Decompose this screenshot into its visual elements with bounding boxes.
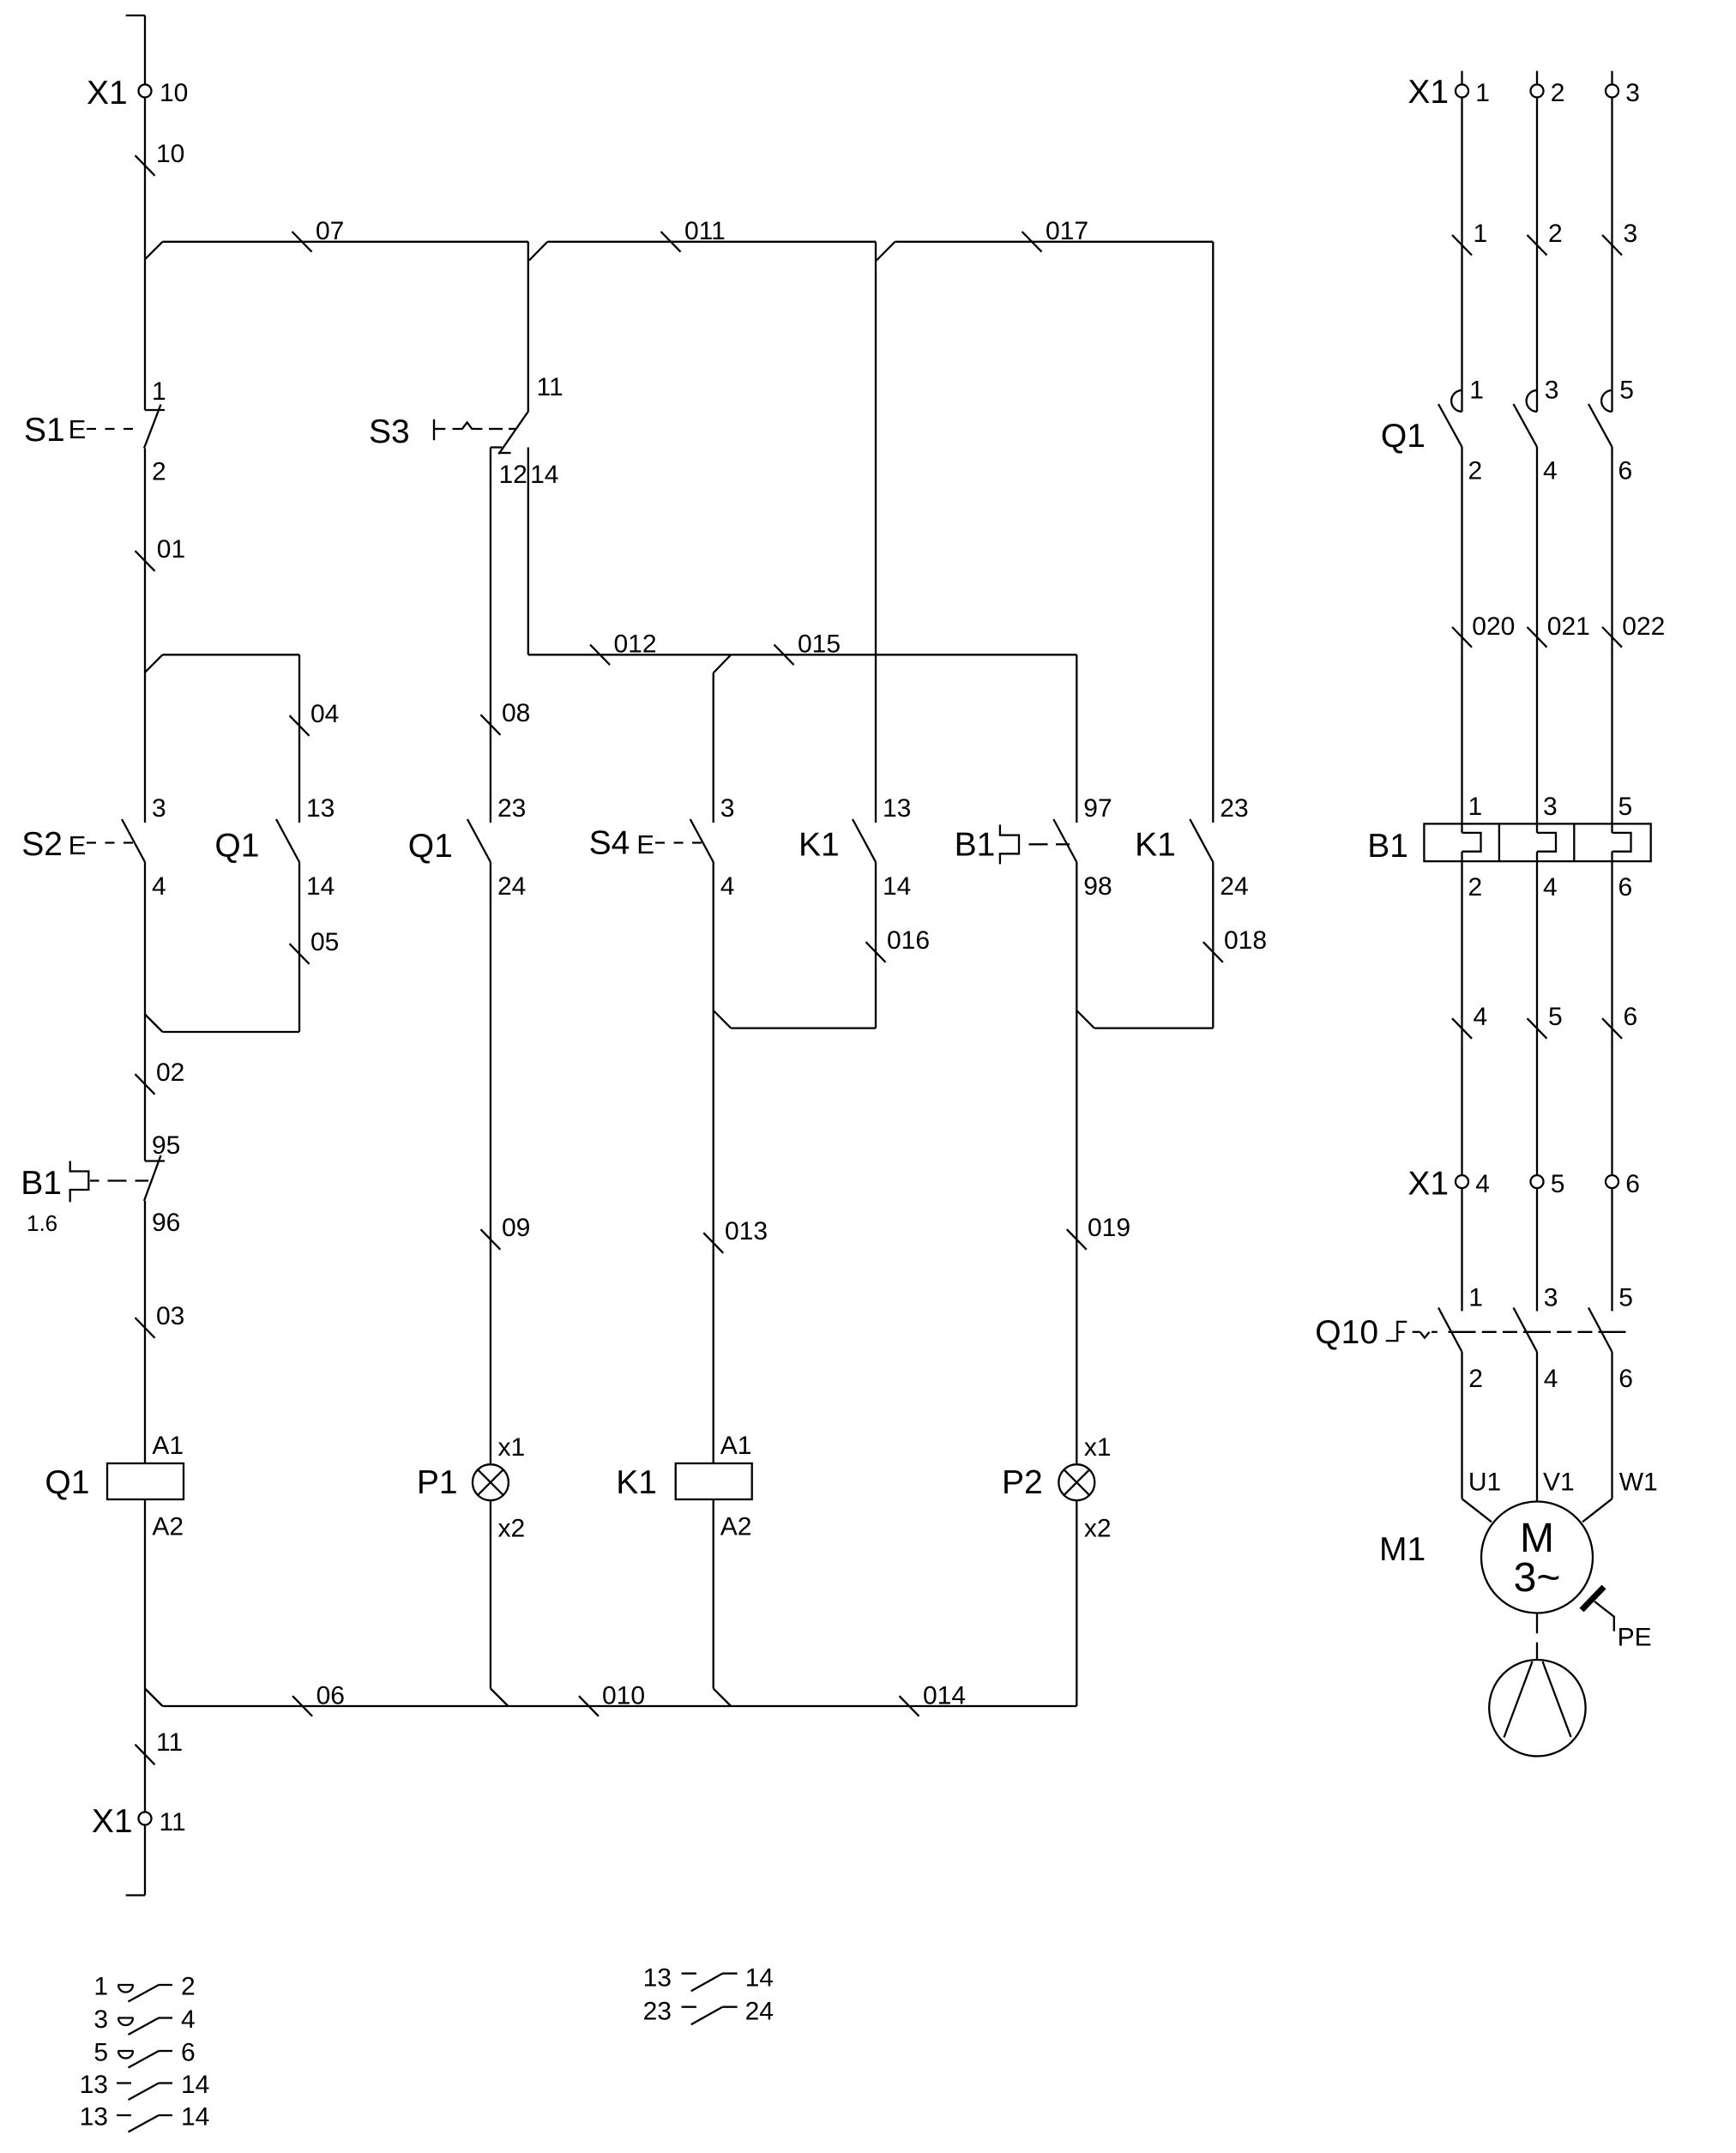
wire K1 A2 down to bottom bus bbox=[714, 1499, 732, 1706]
svg-text:x2: x2 bbox=[498, 1515, 526, 1543]
svg-text:95: 95 bbox=[152, 1131, 180, 1160]
svg-text:2: 2 bbox=[1551, 79, 1565, 107]
wire number 3 bbox=[1602, 220, 1637, 256]
svg-text:K1: K1 bbox=[616, 1464, 657, 1501]
node: Q1 13/14 branch top rail from main wire bbox=[145, 654, 163, 672]
svg-text:K1: K1 bbox=[799, 827, 840, 864]
svg-text:K1: K1 bbox=[1135, 827, 1176, 864]
contactor Q10 pole 5/6 bbox=[1588, 1284, 1633, 1393]
svg-text:x1: x1 bbox=[1084, 1433, 1112, 1462]
overload relay B1 power element box bbox=[1367, 823, 1651, 865]
svg-text:3: 3 bbox=[1624, 220, 1638, 248]
svg-text:05: 05 bbox=[310, 928, 339, 956]
svg-text:1: 1 bbox=[1474, 220, 1488, 248]
svg-text:V1: V1 bbox=[1543, 1469, 1575, 1497]
B1 heater element 5/6 bbox=[1612, 793, 1633, 902]
wire number 017 bbox=[1022, 217, 1089, 252]
wire number 018 bbox=[1203, 926, 1267, 962]
pushbutton S4 (NO) bbox=[589, 794, 735, 901]
wire number 08 bbox=[480, 699, 530, 735]
svg-text:13: 13 bbox=[306, 794, 335, 823]
node: bottom bus 06 from main wire bbox=[145, 1689, 163, 1707]
Q1 contact mirror row 13-14 bbox=[80, 2071, 210, 2100]
terminal X1:3 bbox=[1606, 79, 1640, 107]
svg-text:3: 3 bbox=[1545, 377, 1559, 405]
wire number 10 bbox=[136, 140, 185, 176]
wire 017 top bus bbox=[895, 241, 1214, 243]
overload relay contact B1 97/98 (NO) bbox=[955, 794, 1112, 901]
node: S3 branch from top bus bbox=[528, 242, 548, 411]
svg-text:3: 3 bbox=[1625, 79, 1640, 107]
svg-text:018: 018 bbox=[1224, 926, 1267, 955]
svg-text:4: 4 bbox=[1543, 873, 1558, 902]
svg-text:2: 2 bbox=[1468, 457, 1483, 485]
svg-text:021: 021 bbox=[1547, 612, 1590, 641]
svg-text:97: 97 bbox=[1083, 794, 1112, 823]
svg-text:13: 13 bbox=[883, 794, 911, 823]
svg-text:13: 13 bbox=[643, 1963, 672, 1992]
svg-text:015: 015 bbox=[798, 630, 841, 659]
wire B1 96 to coil Q1 A1 bbox=[144, 1201, 146, 1463]
svg-text:14: 14 bbox=[530, 461, 558, 489]
svg-text:Q1: Q1 bbox=[45, 1464, 89, 1501]
svg-text:4: 4 bbox=[1544, 1365, 1558, 1393]
svg-text:10: 10 bbox=[156, 140, 184, 168]
wire X1:10 to S1 pin 1 bbox=[144, 98, 146, 411]
svg-text:X1: X1 bbox=[1407, 74, 1449, 111]
svg-text:5: 5 bbox=[1619, 377, 1634, 405]
wire 011 top bus bbox=[547, 241, 876, 243]
wire 012 bbox=[528, 654, 1077, 655]
wire number 4 bbox=[1452, 1003, 1487, 1039]
selector switch S3 (changeover) bbox=[369, 373, 564, 489]
wire S1 to S2 bbox=[144, 449, 146, 823]
wire P1 x2 down to bottom bus bbox=[491, 1500, 509, 1706]
svg-text:6: 6 bbox=[1618, 873, 1633, 902]
wire number 015 bbox=[775, 630, 841, 666]
svg-text:x2: x2 bbox=[1084, 1515, 1112, 1543]
svg-text:4: 4 bbox=[720, 872, 735, 901]
svg-text:6: 6 bbox=[181, 2039, 196, 2067]
svg-text:1.6: 1.6 bbox=[27, 1210, 57, 1236]
svg-text:2: 2 bbox=[1468, 1365, 1483, 1393]
K1 contact mirror row 23-24 bbox=[643, 1997, 774, 2025]
svg-text:x1: x1 bbox=[498, 1433, 526, 1462]
Q1 contact mirror row 3-4 bbox=[93, 2005, 195, 2035]
svg-text:02: 02 bbox=[156, 1058, 184, 1087]
aux contact K1 13/14 bbox=[799, 794, 911, 901]
svg-text:A1: A1 bbox=[720, 1432, 752, 1460]
terminal X1 1-2-3 label bbox=[1407, 74, 1449, 111]
wire B1 to X1:4 bbox=[1461, 861, 1462, 1175]
svg-text:6: 6 bbox=[1624, 1003, 1638, 1031]
svg-text:017: 017 bbox=[1046, 217, 1088, 245]
wire number 02 bbox=[136, 1058, 185, 1095]
svg-text:012: 012 bbox=[614, 630, 657, 659]
svg-text:14: 14 bbox=[745, 1963, 774, 1992]
terminal X1:2 bbox=[1531, 79, 1565, 107]
svg-text:14: 14 bbox=[306, 872, 335, 901]
svg-text:5: 5 bbox=[1618, 1284, 1633, 1312]
svg-text:23: 23 bbox=[643, 1997, 672, 2025]
relay coil K1 bbox=[616, 1432, 752, 1541]
wire S2 to B1 bbox=[144, 862, 146, 1161]
wire X1:3 to Q1 pin bbox=[1611, 98, 1612, 412]
svg-text:U1: U1 bbox=[1468, 1469, 1501, 1497]
wire number 1 bbox=[1452, 220, 1487, 256]
svg-text:13: 13 bbox=[80, 2071, 108, 2099]
svg-text:1: 1 bbox=[1475, 79, 1490, 107]
wire number 021 bbox=[1528, 612, 1590, 648]
breaker Q1 pole 3/4 bbox=[1514, 377, 1559, 485]
svg-text:03: 03 bbox=[156, 1302, 184, 1330]
bottom rail K1 13/14 loop bbox=[731, 1027, 876, 1028]
svg-text:3: 3 bbox=[1544, 1284, 1558, 1312]
bottom bus wire 06/010/014 bbox=[163, 1705, 1077, 1707]
svg-text:Q1: Q1 bbox=[214, 828, 259, 865]
svg-text:4: 4 bbox=[152, 872, 166, 901]
svg-text:X1: X1 bbox=[92, 1803, 133, 1840]
svg-text:E: E bbox=[636, 829, 654, 859]
wire Q1 2 to B1 bbox=[1461, 447, 1462, 823]
wire S3 pin 12 down to Q1 23 bbox=[490, 448, 491, 823]
svg-text:011: 011 bbox=[684, 217, 726, 245]
wire number 05 bbox=[290, 928, 340, 964]
bottom rail K1 23/24 loop bbox=[1094, 1027, 1214, 1028]
svg-text:Q1: Q1 bbox=[1381, 418, 1426, 455]
svg-text:24: 24 bbox=[745, 1997, 774, 2025]
motor M1 bbox=[1379, 1502, 1593, 1613]
svg-text:11: 11 bbox=[160, 1808, 186, 1836]
wire number 07 bbox=[292, 217, 345, 252]
node: branch of top bus 07 from main wire bbox=[145, 242, 163, 260]
svg-text:07: 07 bbox=[316, 217, 344, 245]
breaker Q1 pole 1/2 bbox=[1438, 377, 1484, 485]
svg-text:11: 11 bbox=[537, 373, 564, 401]
svg-text:5: 5 bbox=[1551, 1170, 1565, 1198]
wire number 09 bbox=[480, 1214, 530, 1250]
svg-text:A2: A2 bbox=[720, 1513, 752, 1541]
svg-text:6: 6 bbox=[1625, 1170, 1640, 1198]
svg-text:014: 014 bbox=[923, 1682, 966, 1710]
svg-text:14: 14 bbox=[181, 2103, 209, 2132]
svg-text:X1: X1 bbox=[1407, 1166, 1449, 1203]
svg-text:010: 010 bbox=[602, 1682, 645, 1710]
aux contact K1 23/24 bbox=[1135, 794, 1249, 901]
node: K1 13/14 loop bottom rail bbox=[714, 1010, 732, 1028]
wire number 2 bbox=[1528, 220, 1563, 256]
svg-text:020: 020 bbox=[1472, 612, 1515, 641]
svg-text:6: 6 bbox=[1618, 1365, 1633, 1393]
svg-text:6: 6 bbox=[1618, 457, 1633, 485]
pump symbol bbox=[1489, 1660, 1585, 1756]
svg-text:B1: B1 bbox=[1367, 828, 1408, 865]
terminal X1:10 bbox=[87, 75, 188, 112]
terminal X1:1 bbox=[1456, 79, 1490, 107]
svg-text:1: 1 bbox=[1468, 1284, 1483, 1312]
svg-text:X1: X1 bbox=[87, 75, 128, 112]
PE connection bbox=[1582, 1587, 1652, 1651]
svg-text:23: 23 bbox=[497, 794, 526, 823]
wire from bracket to terminal X1:10 bbox=[144, 15, 146, 85]
wire X1:1 to Q1 pin bbox=[1461, 98, 1462, 412]
svg-text:W1: W1 bbox=[1619, 1469, 1658, 1497]
B1 heater element 3/4 bbox=[1537, 793, 1558, 902]
svg-text:S4: S4 bbox=[589, 824, 630, 861]
svg-text:09: 09 bbox=[502, 1214, 530, 1242]
svg-text:08: 08 bbox=[502, 699, 530, 727]
svg-text:3: 3 bbox=[93, 2005, 108, 2034]
svg-text:01: 01 bbox=[157, 535, 185, 564]
circuit breaker Q1 label bbox=[1381, 418, 1426, 455]
wire number 012 bbox=[590, 630, 657, 666]
wire Q1 24 down to lamp P1 bbox=[490, 862, 491, 1464]
svg-text:98: 98 bbox=[1083, 872, 1112, 901]
wire 015 corner down to B1 97 bbox=[1076, 654, 1077, 823]
terminal X1:6 bbox=[1606, 1170, 1640, 1198]
svg-text:3: 3 bbox=[152, 794, 166, 823]
svg-text:04: 04 bbox=[310, 700, 339, 728]
svg-text:1: 1 bbox=[93, 1973, 108, 2001]
wire number 11 bbox=[136, 1728, 184, 1764]
wire Q10:6 to motor W1 bbox=[1582, 1352, 1658, 1522]
wire X1:6 to Q10 bbox=[1611, 1189, 1612, 1312]
svg-text:2: 2 bbox=[181, 1973, 196, 2001]
svg-text:A1: A1 bbox=[152, 1432, 184, 1460]
wire X1:4 to Q10 bbox=[1461, 1189, 1462, 1312]
svg-text:96: 96 bbox=[152, 1209, 180, 1237]
wire S4 to coil K1 A1 bbox=[713, 862, 714, 1463]
wire Q10:4 to motor V1 bbox=[1537, 1352, 1575, 1502]
svg-text:P2: P2 bbox=[1002, 1464, 1043, 1501]
svg-text:4: 4 bbox=[181, 2005, 196, 2034]
wire Q1 14 down bbox=[298, 862, 300, 1032]
svg-text:3: 3 bbox=[720, 794, 735, 823]
wire P2 x2 down to bottom bus corner bbox=[1076, 1500, 1077, 1706]
svg-text:P1: P1 bbox=[417, 1464, 458, 1501]
wire number 020 bbox=[1452, 612, 1515, 648]
svg-text:1: 1 bbox=[152, 377, 166, 406]
contactor Q10 pole 1/2 bbox=[1438, 1284, 1483, 1393]
phase wire stub above X1:2 bbox=[1536, 71, 1538, 85]
node: K1 23/24 loop bottom rail bbox=[1076, 1010, 1094, 1028]
svg-text:2: 2 bbox=[1468, 873, 1483, 902]
svg-text:3: 3 bbox=[1543, 793, 1558, 821]
Q1 contact mirror row 5-6 bbox=[93, 2039, 195, 2068]
node: K1 13 branch from top bus bbox=[876, 242, 895, 823]
svg-text:B1: B1 bbox=[21, 1165, 62, 1202]
pushbutton S1 (NC, stop) bbox=[24, 377, 166, 486]
wire X1:2 to Q1 pin bbox=[1536, 98, 1538, 412]
svg-text:1: 1 bbox=[1469, 377, 1484, 405]
svg-text:3~: 3~ bbox=[1514, 1555, 1561, 1601]
wire B1 to X1:6 bbox=[1611, 861, 1612, 1175]
svg-text:14: 14 bbox=[883, 872, 911, 901]
terminal bracket bottom of X1:11 bbox=[126, 1894, 145, 1896]
svg-text:S1: S1 bbox=[24, 412, 65, 449]
wire number 06 bbox=[292, 1682, 345, 1716]
wire number 5 bbox=[1528, 1003, 1563, 1039]
wire number 03 bbox=[136, 1302, 185, 1338]
svg-text:PE: PE bbox=[1618, 1623, 1652, 1651]
svg-text:022: 022 bbox=[1622, 612, 1665, 641]
svg-text:5: 5 bbox=[93, 2039, 108, 2067]
svg-text:10: 10 bbox=[160, 79, 188, 107]
wire B1 to X1:5 bbox=[1536, 861, 1538, 1175]
svg-text:B1: B1 bbox=[955, 827, 996, 864]
wire X1:11 to bracket bbox=[144, 1825, 146, 1896]
wire Q10:2 to motor U1 bbox=[1462, 1352, 1502, 1522]
wire number 014 bbox=[900, 1682, 967, 1716]
svg-text:4: 4 bbox=[1475, 1170, 1490, 1198]
wire number 6 bbox=[1602, 1003, 1637, 1039]
indicator lamp P1 bbox=[417, 1433, 525, 1543]
contactor coil Q1 bbox=[45, 1432, 184, 1541]
K1 contact mirror row 13-14 bbox=[643, 1963, 774, 1992]
wire B1 98 down to lamp P2 bbox=[1076, 862, 1077, 1464]
svg-text:E: E bbox=[69, 830, 87, 860]
wire number 022 bbox=[1602, 612, 1665, 648]
terminal X1 4-5-6 label bbox=[1407, 1166, 1449, 1203]
overload relay contact B1 95/96 (NC) bbox=[21, 1131, 180, 1237]
svg-text:24: 24 bbox=[1220, 872, 1248, 901]
Q10 linkage dashed line bbox=[1449, 1331, 1626, 1333]
wire 017 corner down to K1 23 bbox=[1212, 242, 1214, 823]
terminal X1:4 bbox=[1456, 1170, 1490, 1198]
terminal X1:5 bbox=[1531, 1170, 1565, 1198]
top rail of Q1 13/14 parallel branch bbox=[163, 654, 300, 823]
B1 heater element 1/2 bbox=[1462, 793, 1483, 902]
svg-text:S2: S2 bbox=[21, 826, 63, 863]
svg-text:S3: S3 bbox=[369, 413, 410, 450]
wire number 010 bbox=[579, 1682, 645, 1716]
svg-text:06: 06 bbox=[316, 1682, 345, 1710]
terminal X1:11 bbox=[92, 1803, 186, 1840]
motor shaft link bbox=[1536, 1613, 1538, 1661]
svg-text:013: 013 bbox=[725, 1217, 768, 1245]
svg-text:Q1: Q1 bbox=[408, 828, 453, 865]
wire 07 top bus bbox=[163, 241, 528, 243]
Q1 contact mirror row 1-2 bbox=[93, 1973, 195, 2002]
wire X1:5 to Q10 bbox=[1536, 1189, 1538, 1312]
bottom rail of Q1 13/14 parallel branch bbox=[145, 1015, 299, 1033]
svg-text:4: 4 bbox=[1543, 457, 1558, 485]
pushbutton S2 (NO, start) bbox=[21, 794, 166, 901]
aux contact Q1 13/14 bbox=[214, 794, 335, 901]
svg-text:14: 14 bbox=[181, 2071, 209, 2099]
node: S4 branch from wire 012 bbox=[714, 654, 732, 823]
wire S3 pin 14 down bbox=[527, 448, 529, 655]
indicator lamp P2 bbox=[1002, 1433, 1112, 1543]
wire Q1 4 to B1 bbox=[1536, 447, 1538, 823]
svg-text:A2: A2 bbox=[152, 1513, 184, 1541]
svg-text:1: 1 bbox=[1468, 793, 1483, 821]
svg-text:Q10: Q10 bbox=[1315, 1314, 1378, 1351]
phase wire stub above X1:1 bbox=[1461, 71, 1462, 85]
svg-text:2: 2 bbox=[1548, 220, 1563, 248]
wire number 011 bbox=[661, 217, 726, 252]
svg-text:24: 24 bbox=[497, 872, 526, 901]
wire number 01 bbox=[136, 535, 186, 571]
terminal bracket top of X1:10 bbox=[126, 15, 145, 16]
svg-text:019: 019 bbox=[1088, 1214, 1130, 1242]
wire number 016 bbox=[866, 926, 931, 962]
svg-text:23: 23 bbox=[1220, 794, 1248, 823]
wire number 013 bbox=[703, 1217, 768, 1253]
wire number 019 bbox=[1067, 1214, 1130, 1250]
svg-text:5: 5 bbox=[1548, 1003, 1563, 1031]
svg-text:M1: M1 bbox=[1379, 1531, 1426, 1568]
contactor Q10 label and actuator bbox=[1315, 1314, 1438, 1351]
wire K1 24 down bbox=[1212, 862, 1214, 1028]
svg-text:E: E bbox=[69, 414, 87, 444]
wire number 04 bbox=[290, 700, 340, 736]
Q1 contact mirror row 13-14 bbox=[80, 2103, 210, 2132]
svg-text:11: 11 bbox=[156, 1728, 183, 1757]
svg-text:016: 016 bbox=[887, 926, 930, 955]
breaker Q1 pole 5/6 bbox=[1588, 377, 1634, 485]
aux contact Q1 23/24 bbox=[408, 794, 527, 901]
svg-text:4: 4 bbox=[1474, 1003, 1488, 1031]
wire Q1 A2 down to X1:11 bbox=[144, 1499, 146, 1812]
wire Q1 6 to B1 bbox=[1611, 447, 1612, 823]
wire K1 14 down bbox=[875, 862, 877, 1028]
svg-text:5: 5 bbox=[1618, 793, 1633, 821]
contactor Q10 pole 3/4 bbox=[1514, 1284, 1558, 1393]
svg-text:2: 2 bbox=[152, 458, 166, 486]
svg-text:12: 12 bbox=[499, 461, 527, 489]
phase wire stub above X1:3 bbox=[1611, 71, 1612, 85]
svg-text:13: 13 bbox=[80, 2103, 108, 2132]
